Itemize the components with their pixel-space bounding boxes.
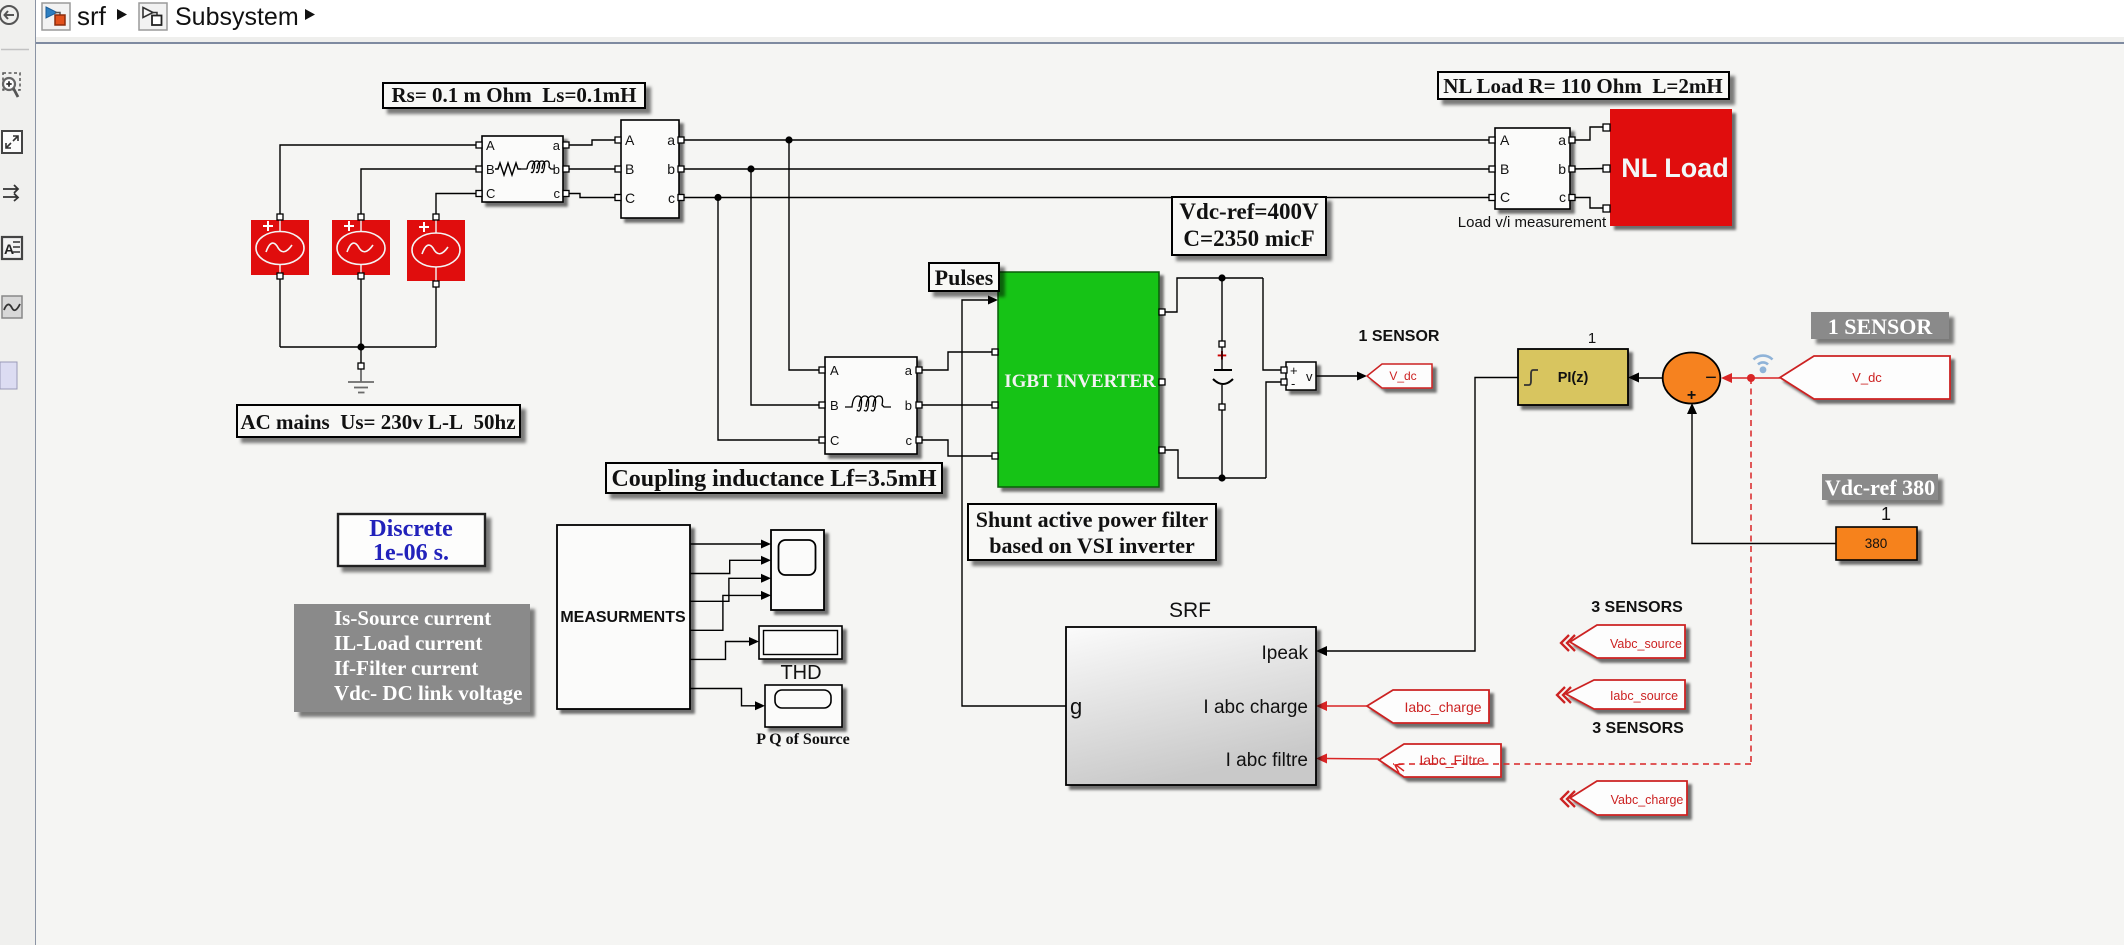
port IGBT out mid: [1159, 379, 1165, 385]
port VI1 c: [678, 195, 684, 201]
wire Zs b to VI B: [569, 168, 616, 170]
IGBT inverter block: [998, 272, 1159, 487]
port source V1 +: [277, 214, 283, 220]
svg-text:Pulses: Pulses: [935, 265, 994, 290]
fit view icon: [2, 131, 22, 153]
port VI1 b: [678, 166, 684, 172]
svg-text:A: A: [1500, 132, 1510, 148]
annotation NL Load label: [1438, 72, 1729, 99]
inductor Ls: [521, 161, 554, 173]
port Lf A: [819, 367, 825, 373]
svg-text:C: C: [1500, 189, 1510, 205]
wire bus phase b: [684, 168, 1490, 170]
svg-text:Coupling inductance Lf=3.5mH: Coupling inductance Lf=3.5mH: [611, 466, 936, 492]
svg-text:c: c: [554, 186, 561, 201]
svg-text:Vdc- DC link voltage: Vdc- DC link voltage: [334, 681, 522, 705]
ground: [348, 369, 374, 393]
PI(z) controller: [1518, 349, 1628, 405]
constant 380: [1836, 527, 1917, 560]
port load VI B: [1489, 166, 1495, 172]
arrow into IGBT pulses: [988, 296, 998, 305]
svg-text:a: a: [1558, 132, 1566, 148]
port load VI a: [1569, 137, 1575, 143]
port Zs A: [476, 142, 482, 148]
svg-text:Iabc_charge: Iabc_charge: [1404, 699, 1481, 715]
back button: [0, 6, 18, 24]
wire source3 bottom: [435, 287, 437, 347]
left tool strip: [0, 0, 36, 945]
arrow into PI input: [1628, 373, 1639, 383]
svg-text:3 SENSORS: 3 SENSORS: [1591, 599, 1683, 616]
svg-text:V_dc: V_dc: [1852, 370, 1882, 385]
svg-text:A: A: [830, 363, 839, 378]
from tag Iabc_charge: [1367, 690, 1489, 723]
svg-text:NL Load: NL Load: [1621, 153, 1729, 183]
svg-text:B: B: [830, 398, 839, 413]
port Zs a: [563, 142, 569, 148]
from tag Iabc_source: [1566, 680, 1685, 709]
port source V3 +: [433, 214, 439, 220]
from tag Vabc_charge: [1570, 781, 1687, 815]
junction phase c node: [714, 194, 721, 201]
svg-text:AC mains Us= 230v L-L 50hz: AC mains Us= 230v L-L 50hz: [240, 410, 515, 434]
from tag Vabc_source: [1570, 625, 1685, 658]
annotation coupling label: [606, 463, 942, 493]
svg-text:1 SENSOR: 1 SENSOR: [1359, 328, 1440, 345]
port VI1 B: [615, 166, 621, 172]
port VI1 A: [615, 137, 621, 143]
svg-text:Vabc_charge: Vabc_charge: [1611, 793, 1684, 807]
AC source 1: [251, 220, 309, 275]
svg-text:g: g: [1070, 694, 1082, 719]
wire meas to PQ: [690, 689, 757, 706]
port IGBT in b: [992, 402, 998, 408]
SRF subsystem: [1066, 627, 1316, 785]
three-phase VI measurement 1: [621, 120, 679, 218]
wire coupling a to IGBT: [922, 352, 992, 370]
waveform icon: [2, 296, 22, 318]
annotation Pulses label: [929, 263, 999, 291]
annotation AC mains label: [237, 405, 520, 437]
arrow into voltmeter goto: [1357, 372, 1367, 381]
svg-text:1e-06 s.: 1e-06 s.: [373, 540, 449, 566]
port voltmeter -: [1281, 379, 1287, 385]
wire source2 to Zs B: [361, 169, 477, 214]
svg-text:IL-Load current: IL-Load current: [334, 631, 482, 655]
arrow into THD: [749, 637, 759, 646]
svg-text:Ipeak: Ipeak: [1262, 643, 1309, 664]
breadcrumb bar: [36, 0, 2124, 37]
port Zs B: [476, 166, 482, 172]
wire bus phase c: [684, 197, 1490, 199]
svg-text:C: C: [830, 433, 839, 448]
svg-text:Rs= 0.1 m Ohm Ls=0.1mH: Rs= 0.1 m Ohm Ls=0.1mH: [391, 83, 636, 107]
svg-text:1: 1: [1881, 504, 1891, 524]
svg-text:Iabc_Filtre: Iabc_Filtre: [1419, 752, 1485, 768]
arrow into sum plus: [1687, 403, 1697, 414]
annotation legend gray box: [294, 604, 530, 712]
wire bus phase a: [684, 139, 1490, 141]
svg-text:P Q of Source: P Q of Source: [756, 731, 849, 748]
arrow into PQ: [755, 701, 765, 710]
wire dc minus to voltmeter: [1266, 382, 1282, 478]
junction dc- node: [1218, 474, 1225, 481]
wire Iabc_charge to SRF: [1326, 705, 1367, 707]
svg-text:Vdc-ref=400V: Vdc-ref=400V: [1179, 199, 1319, 224]
svg-text:A: A: [486, 138, 495, 153]
svg-text:Load v/i measurement: Load v/i measurement: [1458, 214, 1607, 231]
NL Load block: [1610, 109, 1732, 226]
annotation shunt filter label: [968, 504, 1216, 560]
port Zs b: [563, 166, 569, 172]
svg-text:B: B: [1500, 161, 1509, 177]
source impedance block Zs: [482, 136, 563, 202]
from tag V_dc (sensor): [1780, 356, 1950, 399]
port IGBT out +: [1159, 309, 1165, 315]
wire coupling c to IGBT: [922, 440, 992, 456]
dashed logging net horizontal: [1393, 764, 1751, 773]
svg-text:PI(z): PI(z): [1558, 370, 1589, 386]
port load VI C: [1489, 195, 1495, 201]
inductor Lf: [845, 396, 891, 411]
port NL Load b: [1603, 165, 1610, 172]
wire meas to THD: [690, 642, 750, 660]
svg-text:1 SENSOR: 1 SENSOR: [1828, 314, 1934, 339]
svg-text:I abc charge: I abc charge: [1203, 697, 1308, 718]
svg-text:b: b: [1558, 161, 1566, 177]
svg-text:-: -: [1291, 376, 1295, 391]
red nets: [1326, 378, 1780, 764]
wire capacitor bottom lead: [1221, 410, 1223, 478]
port capacitor -: [1219, 404, 1225, 410]
port Lf c: [916, 437, 922, 443]
breadcrumb separator: [117, 9, 127, 20]
wire drop c to coupling C: [718, 198, 820, 441]
junction phase b node: [747, 165, 754, 172]
wire source3 to Zs C: [436, 194, 477, 215]
junction phase a node: [785, 136, 792, 143]
annotation Rs label: [383, 83, 645, 108]
svg-text:v: v: [1306, 369, 1313, 384]
port IGBT out -: [1159, 447, 1165, 453]
wire dc plus to voltmeter: [1263, 278, 1282, 370]
AC source 3: [407, 220, 465, 281]
svg-text:a: a: [905, 363, 913, 378]
arrow into sum minus: [1721, 373, 1732, 383]
wire meas to scope 1: [690, 543, 762, 545]
port source V3 -: [433, 281, 439, 287]
svg-text:SRF: SRF: [1169, 599, 1211, 622]
svg-text:Subsystem: Subsystem: [175, 3, 299, 31]
goto visibility chevron 2: [1557, 687, 1571, 703]
sum junction: [1663, 353, 1721, 405]
svg-text:V_dc: V_dc: [1389, 369, 1416, 383]
svg-text:I abc filtre: I abc filtre: [1226, 750, 1308, 771]
junction dc+ node: [1218, 274, 1225, 281]
goto tag V_dc: [1367, 364, 1432, 388]
svg-text:Discrete: Discrete: [369, 516, 453, 542]
annotation icon: [2, 237, 22, 259]
port source V2 -: [358, 273, 364, 279]
svg-text:Shunt active power filter: Shunt active power filter: [976, 507, 1209, 532]
wire VI load c: [1570, 198, 1604, 209]
wire 380 to sum plus: [1692, 406, 1836, 544]
wire PI out to SRF Ipeak: [1326, 378, 1518, 652]
arrow into SRF I abc filtre: [1316, 754, 1327, 764]
wire source2 bottom: [360, 279, 362, 347]
THD display block: [759, 626, 842, 659]
port Zs c: [563, 191, 569, 197]
wire source1 to Zs A: [280, 145, 477, 214]
resistor Rs: [495, 163, 521, 175]
goto visibility chevron 3: [1561, 791, 1575, 807]
svg-text:3 SENSORS: 3 SENSORS: [1592, 720, 1684, 737]
port Zs C: [476, 191, 482, 197]
wire source1 bottom: [279, 279, 281, 347]
port IGBT in c: [992, 453, 998, 459]
port ground: [358, 363, 364, 369]
svg-text:MEASURMENTS: MEASURMENTS: [560, 609, 686, 626]
svg-text:Vdc-ref 380: Vdc-ref 380: [1825, 475, 1935, 500]
MEASURMENTS block: [557, 525, 690, 709]
model icon srf: [42, 3, 70, 30]
svg-text:IGBT INVERTER: IGBT INVERTER: [1004, 371, 1156, 392]
svg-text:b: b: [905, 398, 912, 413]
port voltmeter +: [1281, 367, 1287, 373]
subsystem icon: [139, 3, 167, 30]
wire coupling b to IGBT: [922, 404, 992, 406]
wire Zs a to VI A: [569, 140, 616, 145]
breadcrumb separator 2: [305, 9, 315, 20]
svg-text:c: c: [668, 190, 675, 206]
voltmeter Vdc: [1286, 362, 1316, 391]
wire capacitor top lead: [1221, 278, 1223, 341]
coupling inductor block: [825, 357, 917, 454]
junction V_dc red node: [1747, 374, 1755, 382]
PQ display block: [765, 685, 842, 727]
svg-text:380: 380: [1865, 536, 1888, 551]
port load VI b: [1569, 166, 1575, 172]
svg-text:c: c: [1559, 189, 1566, 205]
port NL Load c: [1603, 205, 1610, 212]
wire drop b to coupling B: [751, 169, 820, 405]
svg-text:C: C: [625, 190, 635, 206]
goto visibility chevron 1: [1561, 635, 1575, 651]
svg-text:Iabc_source: Iabc_source: [1610, 689, 1678, 703]
port Lf b: [916, 402, 922, 408]
svg-text:−: −: [1705, 367, 1717, 389]
wire sum to PI: [1638, 377, 1662, 379]
port load VI c: [1569, 195, 1575, 201]
wire meas to scope 2: [690, 560, 762, 573]
arrows into scope: [761, 540, 771, 549]
svg-text:A: A: [625, 132, 635, 148]
svg-text:a: a: [667, 132, 675, 148]
svg-text:c: c: [906, 433, 913, 448]
port VI1 a: [678, 137, 684, 143]
svg-text:NL Load R= 110 Ohm L=2mH: NL Load R= 110 Ohm L=2mH: [1443, 74, 1722, 98]
port load VI A: [1489, 137, 1495, 143]
svg-text:If-Filter current: If-Filter current: [334, 656, 478, 680]
port Lf B: [819, 402, 825, 408]
wire Iabc_filtre to SRF: [1326, 758, 1379, 761]
dashed logging net vertical: [1750, 378, 1752, 764]
annotation Vdc-ref 380 gray: [1822, 474, 1938, 500]
svg-text:C=2350 micF: C=2350 micF: [1183, 226, 1314, 251]
junction neutral node: [357, 343, 364, 350]
annotation 1 SENSOR gray: [1811, 312, 1949, 339]
svg-text:+: +: [1687, 387, 1696, 404]
svg-text:a: a: [553, 138, 561, 153]
svg-text:based on VSI inverter: based on VSI inverter: [989, 533, 1195, 558]
port IGBT in a: [992, 349, 998, 355]
port NL Load a: [1603, 124, 1610, 131]
wire drop a to coupling A: [789, 140, 820, 370]
wire IGBT top to dc rail: [1165, 278, 1263, 312]
wire meas to scope 4: [690, 595, 762, 630]
wireless logging icon: [1754, 356, 1773, 374]
svg-text:Vabc_source: Vabc_source: [1610, 637, 1682, 651]
svg-text:B: B: [486, 162, 495, 177]
port source V2 +: [358, 214, 364, 220]
annotation Vdc-ref label: [1172, 197, 1326, 255]
zoom tool icon: [3, 73, 20, 97]
wire Zs c to VI C: [569, 194, 616, 198]
arrow into SRF Ipeak: [1316, 646, 1327, 656]
svg-text:Is-Source current: Is-Source current: [334, 606, 491, 630]
wire Vdc from-tag to sum: [1730, 377, 1780, 379]
wire voltmeter out: [1316, 375, 1360, 377]
scope block: [771, 530, 824, 610]
port VI1 C: [615, 195, 621, 201]
wire VI load b: [1570, 168, 1604, 171]
svg-text:B: B: [625, 161, 634, 177]
svg-text:srf: srf: [77, 1, 107, 31]
wire pulses net: [962, 300, 1066, 706]
port source V1 -: [277, 273, 283, 279]
AC source 2: [332, 220, 390, 275]
wire VI load a: [1570, 127, 1604, 140]
wire neutral rail: [280, 347, 436, 363]
load VI measurement block: [1495, 128, 1570, 209]
selection rect icon: [0, 362, 17, 389]
port Lf C: [819, 437, 825, 443]
wire IGBT bottom to dc rail: [1165, 450, 1266, 478]
port capacitor +: [1219, 341, 1225, 347]
toolbar separator: [1, 49, 29, 51]
powergui Discrete block: [338, 514, 485, 566]
arrow into SRF I abc charge: [1316, 701, 1327, 711]
signal routing icon: [3, 185, 18, 201]
from tag Iabc_Filtre: [1379, 744, 1501, 777]
svg-text:A: A: [4, 241, 14, 257]
dc link capacitor: [1213, 346, 1233, 404]
svg-text:THD: THD: [780, 662, 821, 684]
svg-text:C: C: [486, 186, 495, 201]
wire meas to scope 3: [690, 578, 762, 601]
svg-text:b: b: [667, 161, 675, 177]
svg-text:1: 1: [1588, 330, 1596, 347]
port Lf a: [916, 367, 922, 373]
